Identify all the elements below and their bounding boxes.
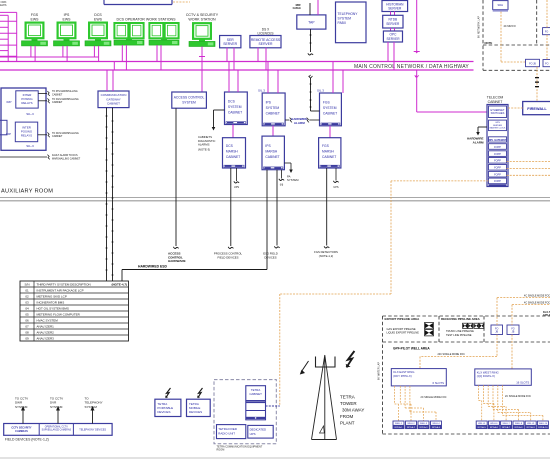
svg-text:SYSTEM: SYSTEM [287,178,299,182]
box FIREWALL [523,102,550,115]
wire to DCS marshalling cabinet [38,134,47,136]
svg-text:IPS: IPS [265,144,271,148]
svg-text:METERING SKID LCP: METERING SKID LCP [37,294,67,298]
svg-text:WORK STATION: WORK STATION [188,18,216,22]
box WELL1 RPDA-1 [393,421,404,429]
svg-text:FGS: FGS [323,101,331,105]
svg-text:DPL GATEWAY: DPL GATEWAY [489,139,507,142]
svg-text:SIL 3: SIL 3 [317,89,324,93]
svg-text:SWITCHES: SWITCHES [491,111,505,115]
wire stub with terminator at x417 [416,0,418,52]
svg-text:6K WATER LAP: 6K WATER LAP [378,362,381,380]
wire foc sdh down [500,12,502,62]
box WELL6 RPDA-6 [488,421,499,429]
box WELL9 RPDA-9 [525,421,536,429]
box FO junction west [507,325,519,335]
svg-text:(DKY RTPA-X): (DKY RTPA-X) [393,374,411,378]
svg-text:SYSTEM: SYSTEM [15,405,28,409]
wire dcs cabinet drops [228,62,230,93]
svg-text:SDH: SDH [498,3,504,7]
wire EWS sub-bus [0,56,98,58]
box FOPP 6 [489,178,507,184]
box partial cabinet at left edge [0,120,7,135]
box COMMUNICATION GATEWAY CABINET [98,91,129,108]
svg-text:(QQ DOWL-X): (QQ DOWL-X) [477,374,495,378]
svg-text:SYSTEM: SYSTEM [50,405,63,409]
svg-text:ETHERNET: ETHERNET [491,108,505,112]
wire gateway drops from bus [106,70,108,91]
svg-text:PABX: PABX [338,21,347,25]
wire foc west riser [511,305,513,325]
box FO patch right lower [543,60,550,67]
svg-text:HVAC SYSTEM: HVAC SYSTEM [37,318,59,322]
page fold light line [0,457,550,459]
wire to FGS marshalling cabinet [38,100,47,102]
wire ips to marsh link [272,126,274,136]
box FOPP 3 [489,158,507,164]
svg-text:OPERATIONAL CCTV: OPERATIONAL CCTV [45,426,68,429]
bolt above mobile [198,388,203,398]
wire dcs diagnostic alarm line [214,109,225,111]
svg-text:FO JB: FO JB [529,62,536,65]
svg-text:07: 07 [25,324,29,328]
svg-text:CABINET: CABINET [323,112,337,116]
wire telephone cable from bus to FGS cabinet [309,75,313,78]
wire hardwired esd run [266,170,268,270]
svg-text:RPDA-3: RPDA-3 [419,426,428,429]
svg-text:SERVER: SERVER [388,7,402,11]
svg-text:SYSTEM: SYSTEM [228,105,242,109]
label fo ticks [535,77,539,78]
svg-text:SYSTEM: SYSTEM [323,106,337,110]
wire foc stub [173,1,190,3]
svg-text:ANALYZER2: ANALYZER2 [37,330,55,334]
workstation FGS EWS [22,23,48,46]
svg-text:08: 08 [25,330,29,334]
svg-text:MARSH: MARSH [265,150,278,154]
svg-text:ALARMS: ALARMS [198,142,210,146]
svg-text:ALARM: ALARM [294,121,305,125]
svg-text:HARDWARE: HARDWARE [168,259,186,263]
area gpf dashed boundary [382,316,384,434]
area tetra equipment room dashed [214,380,276,444]
bolt beside tower [346,351,354,367]
wire hardwire alarm from telecom cabinet [478,126,487,128]
svg-text:09: 09 [25,336,29,340]
svg-text:LIQUID EXPORT PIPELINE: LIQUID EXPORT PIPELINE [387,331,420,335]
svg-text:01: 01 [25,288,29,292]
wire fgs detectors [326,168,328,246]
svg-text:FOPP: FOPP [494,180,501,183]
box IPS SYSTEM CABINET [262,93,285,126]
svg-text:DCS: DCS [228,99,236,103]
svg-text:SYSTEM: SYSTEM [85,405,98,409]
svg-text:UPS: UPS [234,186,239,189]
svg-text:METERING FLOW COMPUTER: METERING FLOW COMPUTER [37,312,81,316]
wire tap magenta feed [317,0,319,15]
svg-text:MARSHALLING CABINET: MARSHALLING CABINET [52,157,81,160]
workstation IPS EWS [54,23,80,46]
svg-text:HOT OIL SYSTEM BMS: HOT OIL SYSTEM BMS [37,306,69,310]
svg-text:CABINET: CABINET [107,102,120,106]
box FO junction east [491,325,503,335]
wire drops to bus [62,46,64,57]
svg-text:SIL-3: SIL-3 [26,144,34,148]
wire foc to firewall top [536,67,538,102]
wire bus tie [113,62,115,71]
box WELL3 RPDA-3 [418,421,429,429]
wire operator ws drops [121,45,123,61]
svg-text:DEVICES: DEVICES [157,410,170,414]
box KLX WEST RING [475,369,532,385]
wire foc feeds from right edge [497,297,550,299]
svg-text:SYSTEM: SYSTEM [182,101,196,105]
svg-text:FOPP: FOPP [494,174,501,177]
svg-text:FO: FO [545,62,548,65]
box WELL10 RPDA-10 [537,421,548,429]
svg-text:DEVICES: DEVICES [264,255,276,259]
box interposing relays 2 [15,122,37,142]
svg-text:RELAYS: RELAYS [21,101,32,105]
wire pa system stub [284,162,291,164]
svg-text:INSTRUMENT AIR PACKAGE LCP: INSTRUMENT AIR PACKAGE LCP [37,288,84,292]
wire foc to WELL5 [478,385,480,400]
svg-text:04: 04 [25,306,29,310]
svg-text:SYSTEM: SYSTEM [266,106,280,110]
wire drops to bus [93,46,95,57]
svg-text:TAP: TAP [308,21,315,25]
svg-text:NOTE: NOTE [485,41,493,45]
box SER SERVER [220,36,241,48]
box WELL8 RPDA-8 [513,421,524,429]
wire arrow to DVR SYSTEM [57,411,59,424]
workstation DCS EWS [85,23,111,46]
wire arrow to DWR SYSTEM [22,411,24,424]
cabinet bottom bar [489,184,507,186]
box OPC SERVER [383,31,402,42]
svg-text:REMOTE ACCESS: REMOTE ACCESS [251,38,281,42]
svg-text:RPDA-8: RPDA-8 [514,426,523,429]
table third party systems [20,281,129,341]
workstation CCTV & security [189,23,215,46]
wire foc telecom to firewall [508,107,523,109]
box gps server master clock [489,120,507,131]
svg-text:THIRD PARTY SYSTEM DESCRIPTIO: THIRD PARTY SYSTEM DESCRIPTION [37,282,91,286]
arrow incoming radio [303,361,309,370]
svg-text:HARDWIRED ESD: HARDWIRED ESD [138,265,168,269]
svg-text:MASTER CLOCK: MASTER CLOCK [490,127,506,130]
wire bus to telecom cabinet [415,75,419,77]
svg-text:INCINERATOR BMS: INCINERATOR BMS [37,300,65,304]
wire fault alarm to DCS marshalling cabinet [0,156,47,158]
wire dcs to marsh link [232,125,234,138]
wire foc to WELL9 [497,385,499,412]
wire remote access server drops [257,48,259,62]
svg-text:GPF-PILOT WELL AREA: GPF-PILOT WELL AREA [393,347,430,351]
box FGS MARSH CABINET [319,138,341,168]
svg-text:(NOTE-3): (NOTE-3) [198,148,210,152]
svg-text:CABINET: CABINET [52,135,63,138]
wire opc server drops to bus [387,42,389,62]
svg-text:SERVER: SERVER [493,125,502,127]
wire ser server drops [226,48,228,62]
svg-text:CABINET: CABINET [228,110,242,114]
svg-text:EXPORT PIPELINE AREA: EXPORT PIPELINE AREA [385,317,421,321]
wire mdf cable into tap [309,3,311,15]
tetra tower [312,355,337,440]
box ethernet switches [489,106,507,118]
wire drops to bus [30,46,32,57]
box dpl gateway cell [489,137,507,142]
svg-text:RPDA-10: RPDA-10 [538,426,548,429]
box TETRA CABINET [246,386,266,420]
svg-text:06: 06 [25,318,29,322]
svg-text:30M AWAY: 30M AWAY [342,407,364,412]
svg-text:GAS EXPORT PIPELINE: GAS EXPORT PIPELINE [387,327,416,331]
box FOPP 4 [489,165,507,171]
svg-text:CABINET: CABINET [488,100,503,104]
box FOPP 1 [489,144,507,150]
box FGS SYSTEM CABINET [320,93,342,126]
box interposing relays 1 [16,91,38,108]
wire main control network bus line 2 [0,69,474,71]
svg-text:IPS: IPS [266,101,272,105]
wire process control field devices [230,168,232,246]
wire fgs to marsh link [329,126,331,138]
svg-text:AUXILIARY ROOM: AUXILIARY ROOM [1,189,53,195]
svg-text:DEVICES: DEVICES [189,410,202,414]
svg-text:NTDB: NTDB [388,18,397,22]
wire foc from fopp3 to right [507,161,550,163]
svg-text:SER: SER [227,38,235,42]
wire foc east riser [496,298,498,325]
box telecom cabinet [487,105,508,187]
box interposing relay cabinet [1,88,46,150]
svg-text:CABINET: CABINET [52,93,63,96]
svg-text:TETRA: TETRA [340,394,355,399]
svg-text:FIELD DEVICES (NOTE-1,2): FIELD DEVICES (NOTE-1,2) [5,437,49,441]
svg-text:EWS: EWS [31,18,40,22]
svg-text:2C SINGLE MODE FOC: 2C SINGLE MODE FOC [505,395,531,398]
box TETRA FIXED RADIO UNIT [217,425,246,439]
wire historian-ntdb links [390,12,392,16]
svg-text:CABINET: CABINET [266,112,280,116]
svg-text:FIELD DEVICES: FIELD DEVICES [218,255,239,259]
wire foc to WELL7 [487,385,489,406]
svg-text:EWS: EWS [94,18,103,22]
svg-text:RPDA-9: RPDA-9 [527,426,536,429]
valve symbols receiving [463,323,468,328]
svg-text:DCS OPERATOR WORK STATIONS: DCS OPERATOR WORK STATIONS [116,18,176,22]
svg-text:SIL 3: SIL 3 [258,89,265,93]
box WELL7 RPDA-7 [501,421,512,429]
svg-text:EWS: EWS [63,18,72,22]
box FO patch right upper [543,28,550,35]
wire ntdb-opc links [390,28,392,31]
svg-text:SERVER: SERVER [386,22,400,26]
svg-text:ROOM: ROOM [217,449,225,452]
svg-text:FO: FO [545,30,548,33]
svg-text:RADIO UNIT: RADIO UNIT [218,431,235,435]
wire to IPS marshalling cabinet [38,93,47,95]
svg-text:RPDA-7: RPDA-7 [502,426,511,429]
box FOPP 5 [489,171,507,177]
svg-text:05: 05 [25,312,29,316]
svg-text:SYSTEM: SYSTEM [338,16,352,20]
wire foc to WELL2 [399,386,401,404]
svg-text:ACCESS CONTROL: ACCESS CONTROL [174,96,205,100]
svg-text:(N): (N) [280,184,284,187]
svg-text:RELAYS: RELAYS [21,134,32,138]
workstation DCS operator work station 1 [114,23,144,45]
svg-text:GPS: GPS [495,122,500,124]
box TETRA PORTABLE DEVICES [155,399,181,416]
svg-text:CABLE: CABLE [293,7,302,10]
svg-text:CABINET: CABINET [265,155,279,159]
box TELEPHONY SYSTEM PABX [336,2,367,43]
box WELL5 RPDA-5 [476,421,487,429]
svg-text:MARSH: MARSH [226,149,239,153]
svg-text:TRUNK LINE PIPELINE: TRUNK LINE PIPELINE [446,329,474,333]
box WELL4 RPDA-4 [431,421,442,429]
svg-text:02: 02 [25,294,29,298]
wire fgs marsh ups stub [335,168,337,181]
svg-text:MARSH: MARSH [322,149,335,153]
wire cctv ws drop to access control system [201,47,203,93]
svg-text:ANALYZER3: ANALYZER3 [37,336,55,340]
svg-text:FOPP: FOPP [494,146,501,149]
svg-text:(NOTE-1,2): (NOTE-1,2) [319,254,334,258]
box FOPP 2 [489,151,507,157]
svg-text:CAMERAS: CAMERAS [15,430,28,433]
svg-text:CABINET: CABINET [322,155,336,159]
box ACCESS CONTROL SYSTEM [172,92,207,108]
wire foc right chain [546,0,548,28]
box TETRA MOBILE DEVICES [187,399,211,416]
svg-text:CCTV & SECURITY: CCTV & SECURITY [186,13,219,17]
svg-text:03: 03 [25,300,29,304]
wire access control hardware line [175,108,177,246]
svg-text:PLANT: PLANT [340,420,355,425]
wire foc to WELL6 [482,385,484,403]
wire foc from fopp4 to right [507,167,550,169]
svg-text:FOPP: FOPP [494,167,501,170]
svg-text:SIL-3: SIL-3 [26,112,34,116]
svg-text:UPS: UPS [333,186,338,189]
svg-text:FGS: FGS [322,144,330,148]
wire hardwire alarm between IPS and FGS [285,119,289,121]
svg-text:RPDA-2: RPDA-2 [407,426,416,429]
wire dcs marsh ups stub [236,168,238,181]
svg-text:FOPP: FOPP [494,160,501,163]
svg-text:4C SINGLE MODE FOC: 4C SINGLE MODE FOC [524,295,550,298]
svg-text:UPS: UPS [250,432,256,436]
wire foc to WELL1 [394,386,396,404]
svg-text:SERVER: SERVER [386,37,400,41]
svg-text:CABINET: CABINET [52,101,63,104]
wire gateway multicore cables down to table [106,108,108,281]
svg-text:FIREWALL: FIREWALL [527,107,547,111]
wire ips marsh ups stub [281,170,283,179]
svg-text:24C SINGLE MODE FOC: 24C SINGLE MODE FOC [438,353,466,356]
workstation DCS operator work station 2 [149,23,179,45]
svg-text:ANALYZER1: ANALYZER1 [37,324,55,328]
box TAP [297,15,326,29]
svg-text:DCS: DCS [226,144,234,148]
wire esd field devices [276,170,278,246]
room separator auxiliary room [0,197,550,199]
wire blue dashed cabinet to foc [266,405,280,407]
svg-text:LICENCES: LICENCES [258,32,274,36]
svg-text:RPDA-1: RPDA-1 [394,426,403,429]
svg-text:JB: JB [495,331,498,334]
svg-text:EWS: EWS [0,3,7,7]
box DCS SYSTEM CABINET [225,92,248,125]
box KLX EAST RING [391,369,446,386]
svg-text:RPDA-4: RPDA-4 [432,426,441,429]
svg-text:TELEPHONY: TELEPHONY [338,12,359,16]
svg-text:SERVER: SERVER [259,42,273,46]
wire main control network bus line 1 [0,61,474,63]
svg-text:6K NETWORK LAP: 6K NETWORK LAP [478,16,481,38]
svg-text:MAIN CONTROL NETWORK / DATA HI: MAIN CONTROL NETWORK / DATA HIGHWAY [354,64,469,70]
wire foc to WELL8 [492,385,494,409]
svg-text:TOWER: TOWER [340,401,357,406]
svg-text:GPF-P: GPF-P [543,314,550,317]
box cut-off cabinet top left [103,0,105,5]
svg-text:SERVER: SERVER [223,42,237,46]
box HISTORIAN SERVER [382,1,408,12]
wire foc from fopp5 to right [507,174,550,176]
svg-text:IRP: IRP [6,100,11,104]
wire tap telephone cable with anchor [310,29,312,52]
box REMOTE ACCESS SERVER [250,36,281,48]
valve symbols export [425,323,434,329]
box WELL2 RPDA-2 [406,421,417,429]
box SDH unit [493,1,508,10]
svg-text:ALARM: ALARM [473,140,484,144]
wire left edge ladder taps [0,11,17,13]
svg-text:TELEPHONY DEVICES: TELEPHONY DEVICES [79,428,106,431]
area dashed telecom interface box [482,0,484,70]
svg-text:4C SINGLE MODE FOC: 4C SINGLE MODE FOC [524,302,550,305]
box DEDICATED UPS [248,425,273,438]
wire fgs cabinet drops [332,62,334,94]
svg-text:RECEIVING PIPELINE AREA: RECEIVING PIPELINE AREA [441,317,481,321]
svg-text:RPDA-6: RPDA-6 [490,426,499,429]
svg-text:(NOTE-4,7): (NOTE-4,7) [111,282,127,286]
box NTDB SERVER [383,15,403,28]
box FO patch left [526,59,540,66]
svg-text:SURVEILLANCE CAMERAS: SURVEILLANCE CAMERAS [42,429,72,432]
wire foc from fopp6 to tetra cabinet [391,180,489,182]
svg-text:6 SLOTS: 6 SLOTS [432,381,444,385]
svg-text:S/N: S/N [24,282,29,286]
wire ips cabinet drops [267,62,269,94]
svg-text:2C SINGLE MODE FOC: 2C SINGLE MODE FOC [421,396,447,399]
wire foc to WELL10 [502,385,504,415]
svg-text:CABINET: CABINET [226,155,240,159]
bolt above portable [166,388,171,398]
box DCS MARSH CABINET [223,138,246,168]
wire foc to WELL4 [409,386,411,412]
svg-text:16 SLOTS: 16 SLOTS [516,380,529,384]
box field devices row [4,424,112,436]
svg-text:CABINET: CABINET [249,392,262,396]
wire foc to WELL3 [404,386,406,408]
box IPS MARSH CABINET [262,136,284,170]
svg-text:RPDA-5: RPDA-5 [478,426,487,429]
